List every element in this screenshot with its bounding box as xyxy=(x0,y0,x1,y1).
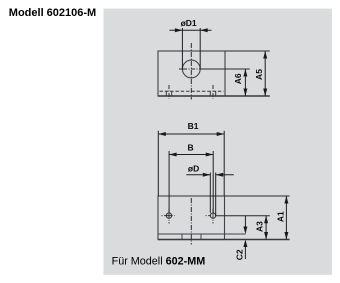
svg-text:A1: A1 xyxy=(276,211,286,222)
svg-text:øD1: øD1 xyxy=(181,18,197,28)
svg-text:øD: øD xyxy=(188,163,199,173)
svg-text:B: B xyxy=(188,142,194,152)
svg-text:B1: B1 xyxy=(188,121,199,131)
svg-text:Für Modell 602-MM: Für Modell 602-MM xyxy=(112,256,206,268)
svg-text:A6: A6 xyxy=(233,73,243,84)
svg-text:A5: A5 xyxy=(254,69,264,80)
svg-text:A3: A3 xyxy=(255,221,265,232)
svg-text:Modell 602106-M: Modell 602106-M xyxy=(9,7,96,19)
svg-text:C2: C2 xyxy=(235,249,245,260)
